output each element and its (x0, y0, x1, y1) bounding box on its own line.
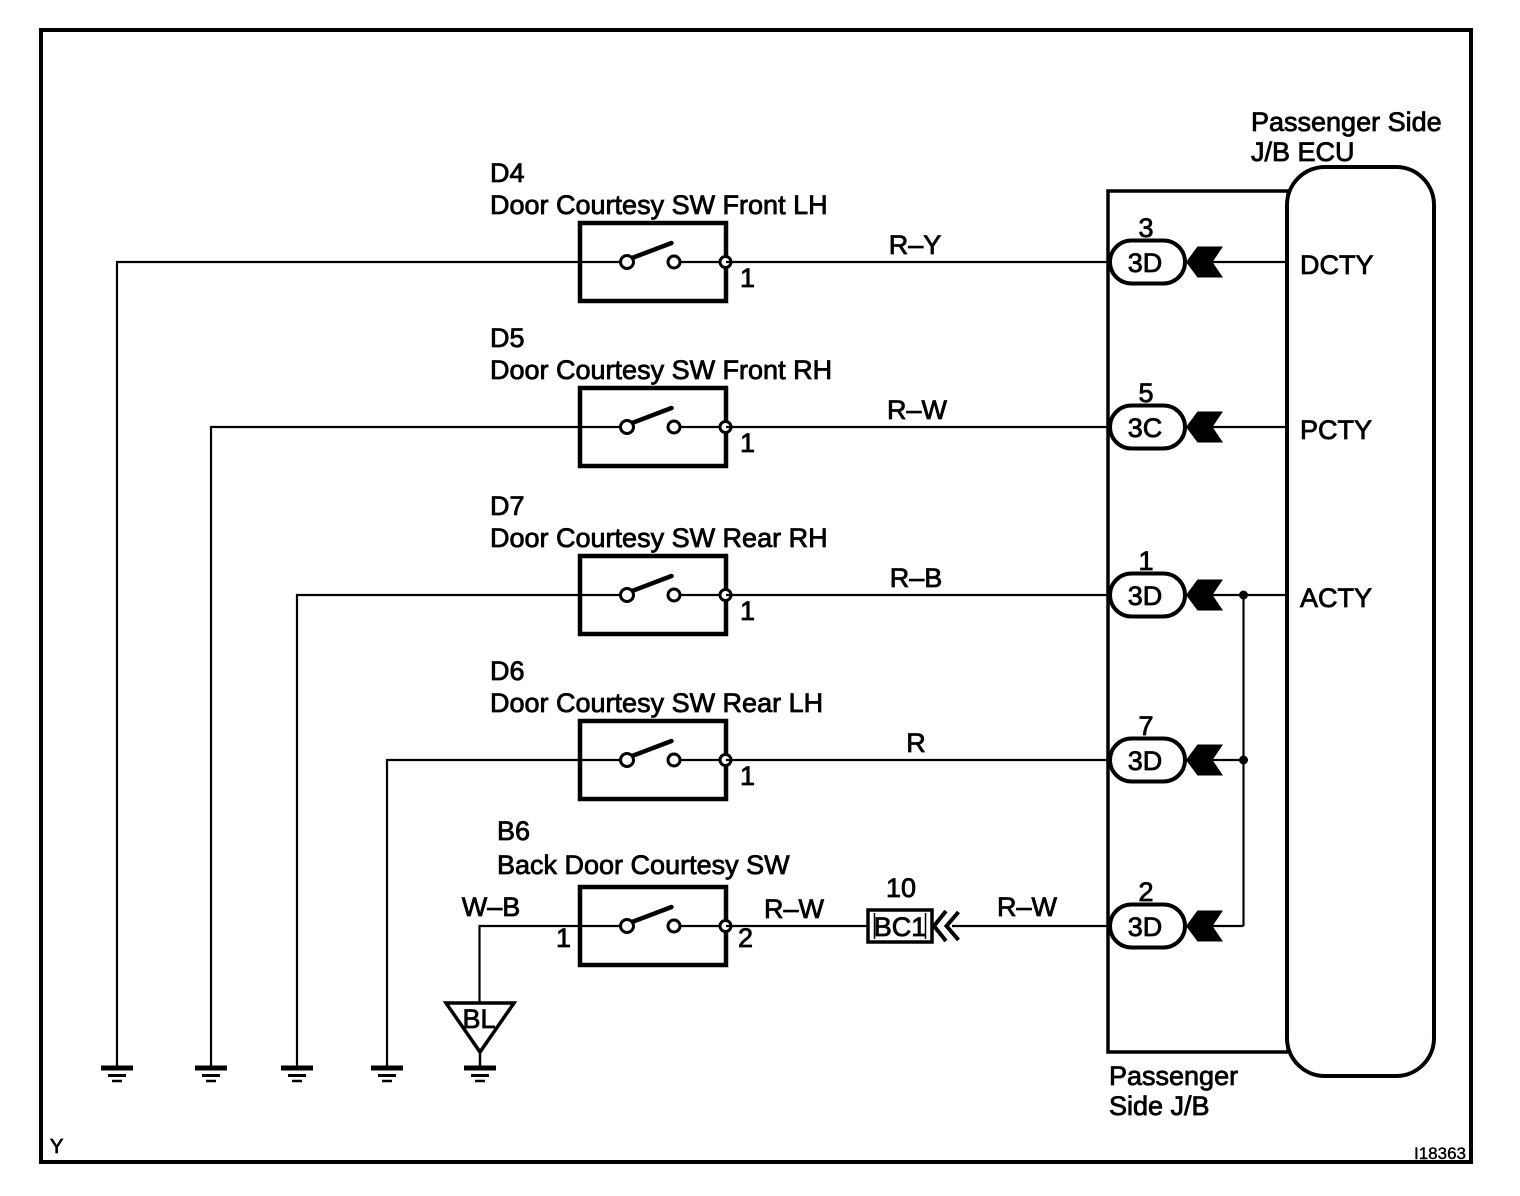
svg-text:R–B: R–B (890, 563, 943, 593)
switch D5 (580, 388, 731, 466)
svg-text:BL: BL (462, 1004, 495, 1034)
connector 3D pin 1 (1110, 574, 1185, 617)
label Passenger Side J/B ECU (1251, 107, 1442, 167)
svg-text:DCTY: DCTY (1300, 250, 1374, 280)
svg-text:Passenger: Passenger (1109, 1061, 1238, 1091)
chevron marks at BC1 (934, 911, 959, 941)
wire D7 pin1 to connector (726, 594, 1110, 596)
connector 3D pin 3 (1110, 241, 1185, 284)
ground for D7 (281, 1068, 313, 1081)
junction dot ACTY/D6 (1239, 756, 1248, 765)
label B6 Back Door Courtesy SW (497, 816, 790, 880)
wire D6 pin1 to connector (726, 759, 1110, 761)
node ACTY branch wire (1242, 595, 1244, 926)
svg-text:Y: Y (50, 1136, 63, 1158)
wire connector to ACTY branch (1185, 759, 1244, 761)
svg-text:Passenger Side: Passenger Side (1251, 107, 1442, 137)
arrow into J/B at D7 (1186, 580, 1223, 611)
svg-text:7: 7 (1138, 711, 1153, 741)
ground BL (464, 1068, 496, 1081)
svg-text:1: 1 (740, 596, 755, 626)
wire connector to ECU PCTY (1185, 426, 1287, 428)
svg-text:1: 1 (556, 923, 571, 953)
svg-text:1: 1 (1138, 546, 1153, 576)
svg-text:3D: 3D (1128, 746, 1163, 776)
svg-text:D4: D4 (490, 158, 525, 188)
svg-text:10: 10 (886, 873, 916, 903)
svg-text:PCTY: PCTY (1300, 415, 1372, 445)
svg-text:Side J/B: Side J/B (1109, 1091, 1210, 1121)
label D5 Door Courtesy SW Front RH (490, 323, 832, 385)
wire connector 3D pin2 to ACTY branch (1185, 925, 1244, 927)
svg-text:Door Courtesy SW Front LH: Door Courtesy SW Front LH (490, 190, 828, 220)
switch B6 (580, 887, 731, 965)
wire D6 to ground riser (387, 760, 580, 1066)
svg-text:5: 5 (1138, 378, 1153, 408)
svg-text:Door Courtesy SW Rear LH: Door Courtesy SW Rear LH (490, 688, 823, 718)
svg-text:Door Courtesy SW Rear RH: Door Courtesy SW Rear RH (490, 523, 828, 553)
svg-text:D7: D7 (490, 491, 525, 521)
svg-text:2: 2 (738, 923, 753, 953)
switch D7 (580, 556, 731, 634)
wire connector to ECU DCTY (1185, 261, 1287, 263)
svg-text:3D: 3D (1128, 581, 1163, 611)
wire D4 pin1 to connector (726, 261, 1110, 263)
arrow into J/B at B6 (1186, 911, 1223, 942)
switch D4 (580, 223, 731, 301)
label D6 Door Courtesy SW Rear LH (490, 656, 823, 718)
svg-text:W–B: W–B (462, 892, 521, 922)
svg-text:R–W: R–W (764, 894, 825, 924)
svg-text:3D: 3D (1128, 912, 1163, 942)
svg-text:R–W: R–W (887, 395, 948, 425)
wire D7 to ground riser (297, 595, 580, 1066)
switch D6 (580, 721, 731, 799)
svg-text:Back Door Courtesy SW: Back Door Courtesy SW (497, 850, 790, 880)
svg-text:B6: B6 (497, 816, 530, 846)
connector BC1 pin 10 (868, 910, 932, 942)
svg-text:R–W: R–W (997, 892, 1058, 922)
svg-text:2: 2 (1138, 877, 1153, 907)
svg-text:D6: D6 (490, 656, 525, 686)
ground for D4 (101, 1068, 133, 1081)
svg-text:D5: D5 (490, 323, 525, 353)
svg-text:1: 1 (740, 428, 755, 458)
svg-text:3: 3 (1138, 213, 1153, 243)
svg-text:I18363: I18363 (1414, 1144, 1466, 1163)
wire D4 to ground riser (117, 262, 580, 1066)
wire D5 pin1 to connector (726, 426, 1110, 428)
ground BL triangle (446, 1003, 514, 1066)
label D7 Door Courtesy SW Rear RH (490, 491, 828, 553)
Passenger Side J/B box (1108, 191, 1288, 1052)
svg-text:BC1: BC1 (874, 912, 927, 942)
label Passenger Side J/B (1109, 1061, 1238, 1121)
svg-text:R: R (906, 728, 926, 758)
wire B6 pin1 to BL ground (480, 926, 581, 1003)
Passenger Side J/B ECU box U1 (1287, 167, 1434, 1076)
arrow into J/B at D6 (1186, 745, 1223, 776)
arrow into J/B at D4 (1186, 247, 1223, 278)
label D4 Door Courtesy SW Front LH (490, 158, 828, 220)
junction dot ACTY/D7 (1239, 591, 1248, 600)
svg-text:ACTY: ACTY (1300, 583, 1372, 613)
svg-text:J/B ECU: J/B ECU (1251, 137, 1355, 167)
ground for D6 (371, 1068, 403, 1081)
svg-text:3C: 3C (1128, 413, 1163, 443)
wire B6 pin2 to BC1 (726, 925, 868, 927)
wire D5 to ground riser (211, 427, 580, 1066)
wire connector to ECU ACTY (1185, 594, 1287, 596)
connector 3C pin 5 (1110, 406, 1185, 449)
connector 3D pin 2 (1110, 905, 1185, 948)
ground for D5 (195, 1068, 227, 1081)
svg-text:R–Y: R–Y (889, 230, 942, 260)
connector 3D pin 7 (1110, 739, 1185, 782)
svg-text:1: 1 (740, 263, 755, 293)
arrow into J/B at D5 (1186, 412, 1223, 443)
svg-text:3D: 3D (1128, 248, 1163, 278)
wire BC1 to connector 3D pin2 (952, 925, 1110, 927)
svg-text:1: 1 (740, 761, 755, 791)
svg-text:Door Courtesy SW Front RH: Door Courtesy SW Front RH (490, 355, 832, 385)
